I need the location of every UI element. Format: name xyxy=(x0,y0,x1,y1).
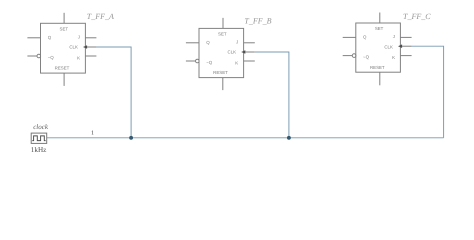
square-wave glyph V1 xyxy=(32,136,45,141)
wire net 1 horizontal bus from clock output xyxy=(47,137,444,139)
svg-text:clock: clock xyxy=(33,123,49,131)
body V1 xyxy=(31,133,47,143)
svg-text:RESET: RESET xyxy=(55,65,70,70)
svg-text:Q: Q xyxy=(206,40,210,45)
pin J U2 xyxy=(244,42,255,44)
svg-text:CLK: CLK xyxy=(69,45,78,50)
T flip-flop U2 T_FF_B xyxy=(186,18,255,90)
wire U2 CLK to net 1 xyxy=(255,52,289,138)
svg-text:1: 1 xyxy=(91,131,94,137)
svg-text:K: K xyxy=(392,55,395,60)
svg-text:SET: SET xyxy=(60,26,69,31)
body U3 xyxy=(356,23,401,72)
pin Q U2 xyxy=(186,42,199,44)
svg-text:SET: SET xyxy=(375,26,384,31)
body U1 xyxy=(41,23,86,73)
svg-text:Q: Q xyxy=(48,35,52,40)
pin CLK U3 (clock arrow) xyxy=(400,45,411,47)
wire U1 CLK to net 1 xyxy=(96,47,131,138)
pin K U2 xyxy=(244,60,255,62)
svg-text:~Q: ~Q xyxy=(206,60,213,65)
clock source V1 xyxy=(31,133,47,143)
svg-text:J: J xyxy=(78,35,80,40)
T flip-flop U3 T_FF_C xyxy=(343,13,412,86)
svg-text:K: K xyxy=(235,61,238,66)
pin J U3 xyxy=(400,36,411,38)
svg-text:K: K xyxy=(77,56,80,61)
pin SET U1 xyxy=(63,13,65,23)
svg-text:T_FF_A: T_FF_A xyxy=(87,12,114,21)
pin K U1 xyxy=(85,55,96,57)
pin RESET U1 xyxy=(63,73,65,86)
pin K U3 xyxy=(400,55,411,57)
svg-text:CLK: CLK xyxy=(384,44,393,49)
pin RESET U2 xyxy=(222,78,224,91)
svg-text:1kHz: 1kHz xyxy=(31,146,47,154)
svg-text:T_FF_C: T_FF_C xyxy=(403,12,431,21)
svg-text:RESET: RESET xyxy=(370,65,385,70)
svg-text:Q: Q xyxy=(363,35,367,40)
junction node B on net 1 xyxy=(287,136,291,140)
pin Q U1 xyxy=(27,37,40,39)
pin CLK U1 (clock arrow) xyxy=(85,46,96,48)
pin RESET U3 xyxy=(379,72,381,85)
body U2 xyxy=(199,28,244,77)
svg-text:~Q: ~Q xyxy=(363,55,370,60)
svg-text:CLK: CLK xyxy=(228,50,237,55)
svg-text:~Q: ~Q xyxy=(48,55,55,60)
pin Q U3 xyxy=(343,36,356,38)
pin ~Q U3 (inverting bubble) xyxy=(343,55,353,57)
svg-text:J: J xyxy=(393,34,395,39)
pin ~Q U1 (inverting bubble) xyxy=(27,55,37,57)
pin SET U3 xyxy=(379,13,381,24)
T flip-flop U1 T_FF_A xyxy=(27,13,96,86)
svg-text:J: J xyxy=(236,40,238,45)
pin ~Q U2 (inverting bubble) xyxy=(186,60,196,62)
pin CLK U2 (clock arrow) xyxy=(244,51,255,53)
svg-text:RESET: RESET xyxy=(213,70,228,75)
junction node A on net 1 xyxy=(129,136,133,140)
svg-text:T_FF_B: T_FF_B xyxy=(244,16,271,25)
pin SET U2 xyxy=(222,18,224,29)
wire U3 CLK to net 1 xyxy=(412,46,444,138)
svg-text:SET: SET xyxy=(218,31,227,36)
pin J U1 xyxy=(85,37,96,39)
